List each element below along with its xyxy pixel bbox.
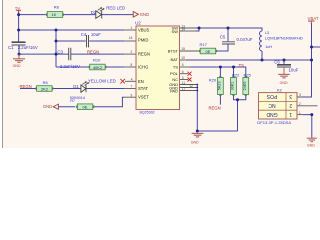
- svg-text:1: 1: [131, 26, 133, 30]
- svg-text:EN: EN: [138, 79, 144, 84]
- svg-text:R8: R8: [54, 4, 60, 9]
- svg-text:R6: R6: [43, 80, 49, 85]
- svg-text:C4: C4: [81, 32, 87, 37]
- svg-text:R22: R22: [232, 72, 240, 77]
- svg-text:10uF: 10uF: [289, 67, 299, 72]
- svg-text:VBAT: VBAT: [308, 16, 319, 21]
- svg-text:30K1: 30K1: [231, 81, 235, 90]
- svg-text:10: 10: [181, 56, 185, 60]
- svg-text:6: 6: [182, 70, 184, 74]
- svg-text:5K23: 5K23: [217, 81, 221, 90]
- svg-text:C5: C5: [220, 35, 226, 40]
- svg-text:RED LED: RED LED: [106, 6, 125, 11]
- svg-text:VSET: VSET: [138, 95, 149, 100]
- svg-text:0.047uF: 0.047uF: [237, 37, 253, 42]
- svg-text:2.2uF/16V: 2.2uF/16V: [18, 45, 38, 50]
- svg-text:10uF: 10uF: [91, 32, 101, 37]
- svg-text:R25: R25: [244, 72, 252, 77]
- svg-text:R17: R17: [200, 42, 208, 47]
- svg-text:2.2uF/16V: 2.2uF/16V: [60, 64, 80, 69]
- svg-text:12: 12: [189, 84, 193, 88]
- svg-text:1: 1: [289, 111, 292, 117]
- svg-text:15: 15: [181, 47, 185, 51]
- svg-text:3: 3: [299, 93, 301, 97]
- svg-text:C1: C1: [8, 45, 14, 50]
- svg-text:1uH: 1uH: [265, 45, 272, 49]
- svg-text:24K9: 24K9: [243, 81, 247, 90]
- svg-text:BAT: BAT: [171, 57, 179, 62]
- svg-text:PMID: PMID: [138, 38, 148, 43]
- svg-text:GND: GND: [307, 143, 315, 147]
- svg-text:REGN: REGN: [20, 84, 32, 89]
- svg-text:POS: POS: [266, 93, 277, 99]
- svg-text:5: 5: [182, 63, 184, 67]
- svg-text:5V: 5V: [15, 5, 20, 10]
- svg-text:D1: D1: [73, 84, 79, 89]
- svg-text:U2: U2: [135, 21, 141, 26]
- svg-text:R20: R20: [209, 77, 217, 82]
- svg-text:D2: D2: [91, 10, 97, 15]
- svg-text:GND: GND: [140, 12, 149, 17]
- svg-text:BQ25302: BQ25302: [140, 110, 155, 114]
- svg-text:TS: TS: [239, 63, 245, 68]
- svg-text:17: 17: [182, 87, 186, 91]
- svg-text:POL: POL: [170, 71, 179, 76]
- svg-text:REGN: REGN: [87, 49, 99, 54]
- svg-text:TS: TS: [173, 65, 178, 70]
- svg-text:2: 2: [299, 102, 301, 106]
- svg-text:2: 2: [131, 50, 133, 54]
- svg-text:9: 9: [131, 93, 133, 97]
- svg-text:0E: 0E: [206, 49, 211, 54]
- svg-text:STAT: STAT: [138, 86, 148, 91]
- svg-text:R7: R7: [70, 99, 75, 103]
- svg-text:3: 3: [289, 93, 292, 99]
- svg-text:PAD: PAD: [170, 89, 178, 94]
- svg-text:DF13-3P-1.25DSA: DF13-3P-1.25DSA: [257, 120, 291, 125]
- svg-text:VBUS: VBUS: [138, 28, 150, 33]
- svg-text:7: 7: [131, 85, 133, 89]
- svg-text:C3: C3: [57, 50, 63, 55]
- svg-text:GND: GND: [280, 81, 288, 85]
- svg-text:GND: GND: [13, 64, 21, 68]
- svg-text:40K2: 40K2: [93, 65, 103, 70]
- svg-text:16: 16: [129, 36, 133, 40]
- svg-text:YELLOW LED: YELLOW LED: [88, 79, 116, 84]
- svg-text:SW: SW: [172, 29, 179, 34]
- svg-text:8: 8: [131, 63, 133, 67]
- svg-text:2: 2: [289, 102, 292, 108]
- svg-text:2K2: 2K2: [41, 86, 49, 91]
- svg-text:GND: GND: [191, 140, 199, 144]
- svg-text:LQM18PN1R0MFHD: LQM18PN1R0MFHD: [265, 35, 303, 40]
- svg-text:REGN: REGN: [138, 52, 150, 57]
- svg-text:GND: GND: [43, 104, 52, 109]
- svg-text:GND: GND: [266, 111, 278, 117]
- svg-text:0E: 0E: [83, 105, 88, 110]
- svg-text:NC: NC: [268, 102, 276, 108]
- svg-text:C6: C6: [274, 60, 280, 65]
- svg-text:REGN: REGN: [209, 106, 221, 111]
- svg-text:4: 4: [131, 78, 133, 82]
- svg-text:K2: K2: [277, 88, 283, 93]
- svg-text:3: 3: [182, 76, 184, 80]
- svg-text:ICHG: ICHG: [138, 65, 148, 70]
- svg-text:1K: 1K: [51, 12, 56, 17]
- svg-text:14: 14: [181, 28, 185, 32]
- svg-text:11: 11: [182, 81, 186, 85]
- svg-text:1: 1: [299, 111, 301, 115]
- svg-text:R10: R10: [93, 58, 101, 63]
- svg-text:BTST: BTST: [168, 49, 179, 54]
